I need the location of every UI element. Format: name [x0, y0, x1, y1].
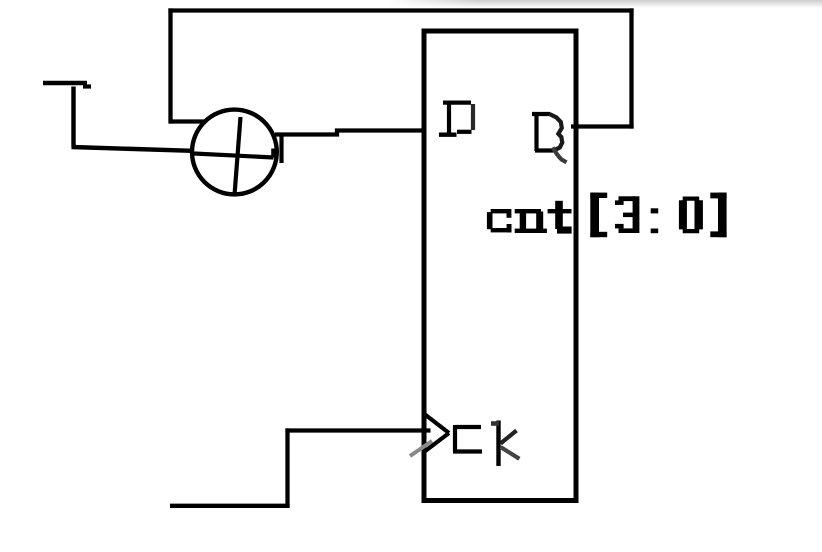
wire: Q output connector	[571, 124, 634, 128]
clock label k top nub	[491, 421, 499, 426]
wire: feedback right vertical	[629, 8, 633, 128]
wire: input falling edge vertical	[71, 87, 75, 148]
wire: adder output to D input	[275, 131, 424, 135]
pin label D: left vertical	[447, 103, 451, 135]
wire: feedback top horizontal	[168, 8, 633, 12]
adder output riser	[279, 136, 283, 163]
wire: feedback jog into adder	[171, 119, 206, 123]
wire: clock low level	[170, 504, 290, 508]
pin label Q: top bar	[532, 112, 550, 116]
pin label Q: right bumpy side	[550, 114, 563, 151]
pin label Q: bottom bar	[535, 148, 553, 152]
pin label D: right vertical	[471, 104, 475, 130]
wire: clock rising edge vertical	[285, 428, 289, 508]
pin label D: top bar	[443, 100, 471, 104]
adder U2 circle	[192, 110, 277, 195]
net label cnt[3:0] letter t	[548, 201, 572, 234]
adder plus horizontal stroke	[194, 154, 274, 158]
net label cnt[3:0] digit 3	[615, 196, 639, 233]
pin label Q: tail	[553, 148, 567, 163]
clock pin triangle upper stroke	[424, 414, 449, 434]
clock label k lower leg	[501, 447, 520, 459]
net label cnt[3:0] letter n	[515, 209, 547, 233]
net label cnt[3:0] colon	[651, 208, 659, 233]
pin label Q: left vertical	[534, 114, 538, 151]
wire: input high level	[43, 81, 87, 86]
clock pin gray tail	[410, 441, 432, 456]
gray header strip	[388, 0, 822, 8]
wire: feedback left vertical	[168, 8, 172, 123]
clock label C left vertical	[453, 425, 457, 452]
net label cnt[3:0] letter c	[487, 209, 512, 232]
wire: clock high level into flip-flop	[285, 428, 430, 432]
clock pin triangle lower stroke	[424, 433, 449, 452]
net label cnt[3:0] digit 0	[679, 197, 703, 234]
wire: input falling-edge nub	[83, 84, 91, 88]
pin label D: bottom-right bar	[457, 130, 472, 134]
adder plus right-end tick	[271, 149, 275, 158]
wire: input low level into adder	[72, 147, 193, 151]
net label cnt[3:0] bracket ]	[710, 193, 726, 238]
pin label D: bottom serif	[439, 132, 457, 136]
flip-flop U1 box	[424, 31, 576, 501]
clock label C bottom bar	[453, 449, 482, 453]
clock label k vertical	[496, 421, 500, 467]
clock label C top bar	[455, 425, 481, 429]
clock label k upper leg	[501, 431, 517, 444]
net label cnt[3:0] bracket [	[590, 193, 607, 238]
adder plus vertical stroke	[235, 117, 241, 195]
